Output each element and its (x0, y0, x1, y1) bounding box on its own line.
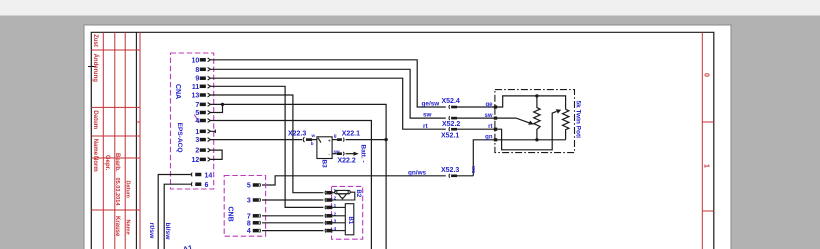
svg-text:sw: sw (334, 149, 341, 154)
connector X22.2 with Batt arrow (332, 152, 359, 156)
CNA coding diagonal (194, 115, 199, 123)
poti pin squares (494, 105, 497, 141)
pin row 192.7 (325, 191, 332, 195)
pin 10 (200, 58, 210, 62)
pin row 207.4 (325, 206, 332, 210)
svg-text:+: + (328, 138, 331, 144)
svg-text:bl/sw: bl/sw (164, 223, 171, 241)
svg-text:B3: B3 (321, 160, 328, 169)
red frame tick right y122 (702, 121, 714, 123)
pin row 215.8 (325, 214, 332, 218)
wire pin11 down to B1 (211, 86, 324, 207)
wire pin9 to X52.1 (211, 78, 446, 129)
svg-text:A1: A1 (182, 243, 193, 249)
CNA pin contacts (rect + arc) (191, 58, 210, 186)
connector X52.1 (449, 127, 495, 131)
svg-text:Änderung: Änderung (92, 54, 99, 83)
junction top wire (535, 94, 538, 97)
connector CNA dashed box (171, 53, 214, 189)
B box tiny pin numbers (334, 188, 337, 231)
poti internal: ge to tops (497, 96, 566, 109)
svg-text:X52.3: X52.3 (441, 167, 459, 174)
pin 8 (200, 67, 210, 71)
title block texts (92, 34, 131, 237)
svg-text:Datum: Datum (92, 110, 98, 129)
wire pin6 down bl/sw (164, 184, 191, 249)
component B3 box (317, 137, 332, 159)
svg-text:Gepr.: Gepr. (104, 155, 110, 171)
svg-text:Batt. -: Batt. - (360, 145, 367, 163)
connector X52.2 (449, 116, 495, 120)
CNA pin numbers (192, 57, 200, 164)
svg-text:11: 11 (192, 84, 200, 91)
pin 5 (200, 111, 210, 115)
svg-text:X52.4: X52.4 (442, 98, 460, 105)
svg-text:B1: B1 (347, 217, 353, 225)
rt loop to right wiper arrow (497, 109, 562, 150)
row label 0 (702, 73, 709, 77)
wire CNB7 to B1 (262, 215, 323, 217)
svg-text:gn/ws: gn/ws (408, 170, 427, 177)
red frame tick left y122 (136, 121, 140, 123)
svg-text:ge: ge (485, 102, 493, 108)
row label 1 (702, 164, 709, 168)
svg-text:X52.2: X52.2 (442, 121, 460, 128)
svg-text:Bearb.: Bearb. (114, 153, 120, 172)
svg-text:X22.3: X22.3 (288, 131, 306, 138)
svg-text:-: - (328, 152, 330, 158)
pin 5 (253, 183, 260, 187)
wire pin14 down rt/sw (158, 175, 191, 249)
svg-text:Krause: Krause (114, 216, 120, 237)
svg-text:8: 8 (195, 67, 199, 74)
pin 8 (253, 221, 260, 225)
pin 9 (200, 76, 210, 80)
B unit dashed box (332, 186, 363, 239)
poti gn bottom wire (497, 139, 566, 141)
svg-text:7: 7 (195, 102, 199, 109)
junction pin7/5 (221, 103, 224, 106)
component 5k Twin Poti dash-dot box (495, 90, 575, 153)
svg-text:ge/sw: ge/sw (422, 101, 440, 108)
sw wiper arrow (497, 118, 534, 125)
wire pin5 jumper to pin7 (211, 104, 223, 112)
pin 6 (191, 182, 200, 186)
svg-text:w: w (311, 133, 316, 138)
svg-text:3: 3 (247, 198, 251, 205)
svg-text:5: 5 (195, 110, 199, 117)
svg-text:7: 7 (247, 213, 251, 220)
svg-text:2: 2 (195, 148, 199, 155)
svg-text:ws: ws (470, 165, 476, 173)
pin row 222.8 (325, 221, 332, 225)
svg-text:4: 4 (195, 118, 199, 125)
connector X22.1 (332, 138, 386, 142)
pin 11 (200, 84, 210, 88)
svg-text:8: 8 (247, 220, 251, 227)
junction X22.1 node (384, 138, 387, 141)
svg-text:Zust: Zust (92, 34, 98, 47)
buzzer B2 (332, 190, 355, 200)
svg-text:10: 10 (192, 57, 200, 64)
pin 12 (200, 158, 210, 162)
left resistor R-left (534, 96, 540, 140)
black frame border (91, 32, 714, 249)
CNB pin contacts (253, 183, 260, 232)
svg-text:9: 9 (195, 76, 199, 83)
svg-text:X22.1: X22.1 (342, 131, 360, 138)
wire pin8 to X52.2 (211, 69, 446, 118)
pin 2 (200, 148, 210, 152)
wire pin2 pin12 jumper (211, 150, 223, 159)
pin 3 (253, 198, 260, 202)
svg-text:X52.1: X52.1 (441, 132, 459, 139)
pin 4 (200, 119, 210, 123)
wire CNB4 to B1 (262, 230, 323, 232)
wire pin3 to X22.3 (211, 139, 303, 141)
pin 4 (253, 229, 260, 233)
svg-text:sw: sw (484, 113, 492, 119)
svg-text:Norm: Norm (92, 156, 98, 172)
pin 14 (191, 173, 200, 177)
svg-text:0: 0 (702, 73, 709, 77)
svg-text:Name: Name (92, 139, 98, 156)
junction gn wire (535, 138, 538, 141)
red frame line left (139, 32, 141, 249)
svg-text:3: 3 (195, 137, 199, 144)
top light band (0, 0, 820, 16)
svg-text:gn: gn (485, 135, 493, 141)
title block red grid (91, 32, 140, 249)
CNB pin numbers (247, 183, 251, 236)
svg-text:Name: Name (125, 220, 131, 235)
wire pin13 down to B2 (211, 95, 324, 193)
wire CNB3 to B2 (262, 199, 323, 201)
svg-text:1: 1 (702, 164, 709, 168)
pin 3 (200, 138, 210, 142)
svg-text:rt: rt (488, 124, 492, 130)
wire pin4 drop (211, 121, 372, 249)
connector CNB dashed box (224, 176, 265, 237)
wire pin10 to X52.4 (211, 60, 446, 107)
svg-text:5: 5 (247, 183, 251, 190)
connector X52.4 (449, 105, 495, 109)
right resistor R-right (563, 109, 569, 140)
svg-text:rt/sw: rt/sw (148, 223, 155, 240)
svg-text:5k Twin Poti: 5k Twin Poti (574, 101, 581, 139)
title block black right edge (135, 32, 137, 249)
wire riser to gn pin (473, 140, 495, 176)
pin row 200 (325, 198, 332, 202)
pin 7 (200, 103, 210, 107)
svg-text:g: g (334, 133, 337, 138)
wire pin7 to X22.1 node (211, 104, 387, 249)
connector X52.3 (449, 174, 473, 178)
svg-text:13: 13 (192, 93, 200, 100)
red frame tick right y211 (702, 210, 714, 212)
svg-text:12: 12 (192, 157, 200, 164)
wire CNB5 riser to gn/ws (262, 176, 446, 185)
pin 7 (253, 214, 260, 218)
white drawing page (84, 25, 731, 249)
svg-text:b: b (311, 141, 314, 146)
pin 1 (200, 129, 210, 133)
svg-text:4: 4 (247, 228, 251, 235)
poti pin labels ge sw rt gn (484, 102, 493, 141)
resistor block B1 (332, 204, 354, 235)
svg-text:sw: sw (423, 112, 432, 119)
wire pin1 stub (211, 130, 216, 133)
pin 13 (200, 93, 210, 97)
page center mark tick (88, 66, 96, 68)
connector X22.3 (303, 137, 317, 142)
svg-text:Datum: Datum (125, 181, 131, 198)
svg-text:14: 14 (205, 172, 213, 179)
svg-text:B2: B2 (355, 190, 361, 198)
svg-text:05.03.2014: 05.03.2014 (114, 178, 120, 207)
svg-text:CNB: CNB (226, 207, 233, 222)
red frame line right (701, 32, 703, 249)
pin row 230.6 (325, 229, 332, 233)
svg-text:X22.2: X22.2 (338, 158, 356, 165)
B box pin contacts (325, 191, 332, 233)
svg-text:1: 1 (195, 129, 199, 136)
wire CNB8 to B1 (262, 222, 323, 224)
svg-text:6: 6 (205, 182, 209, 189)
svg-text:EPS-ACQ: EPS-ACQ (176, 123, 183, 153)
svg-text:CNA: CNA (174, 84, 181, 99)
